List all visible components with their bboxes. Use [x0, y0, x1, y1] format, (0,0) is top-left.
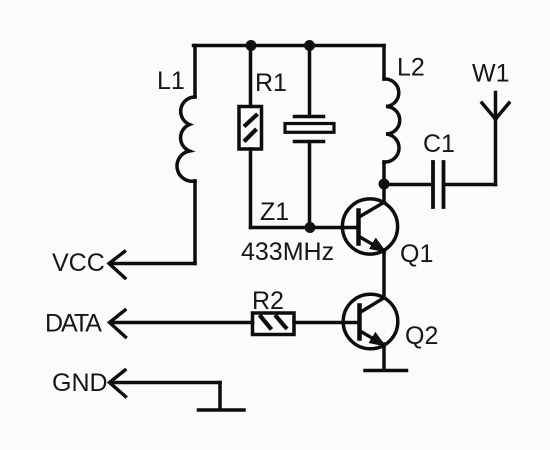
port GND [110, 370, 221, 410]
ground bar [199, 408, 245, 412]
inductor L2 [384, 46, 400, 185]
svg-text:DATA: DATA [45, 310, 102, 338]
transistor Q2 [343, 294, 398, 349]
svg-text:C1: C1 [423, 130, 455, 158]
port DATA wire [111, 321, 253, 325]
svg-text:Z1: Z1 [260, 198, 289, 226]
wire top supply bus [194, 44, 385, 48]
svg-text:W1: W1 [472, 60, 510, 88]
wire R2 to Q2 base [294, 321, 359, 325]
svg-text:VCC: VCC [52, 249, 105, 277]
svg-text:R2: R2 [252, 287, 284, 315]
node junction Z1/top [304, 40, 315, 51]
node junction L2/collector/C1 [379, 179, 390, 190]
svg-text:GND: GND [52, 369, 108, 397]
inductor L1 [177, 46, 195, 264]
resistor R1 [239, 46, 262, 228]
wire to C1 [384, 183, 432, 187]
wire C1 to antenna [445, 183, 496, 187]
svg-text:Q2: Q2 [405, 322, 438, 350]
port VCC [109, 252, 195, 279]
svg-text:433MHz: 433MHz [241, 238, 334, 266]
resistor R2 [253, 313, 295, 335]
wire Q1 emitter to Q2 collector [382, 250, 386, 298]
port DATA arrow [110, 310, 126, 337]
capacitor C1 [433, 162, 444, 207]
svg-text:L1: L1 [157, 67, 185, 95]
wire Q1 collector [382, 184, 386, 203]
transistor Q1 [342, 199, 397, 254]
svg-text:R1: R1 [255, 69, 287, 97]
node junction Z1/base [305, 222, 316, 233]
antenna W1 [482, 93, 509, 185]
crystal Z1 [285, 46, 334, 228]
ground bar Q2 emitter [365, 369, 407, 373]
wire base of Q1 [251, 226, 359, 230]
node junction R1/top [246, 40, 257, 51]
wire Q2 emitter [382, 344, 386, 370]
svg-text:L2: L2 [397, 54, 425, 82]
svg-text:Q1: Q1 [400, 240, 433, 268]
